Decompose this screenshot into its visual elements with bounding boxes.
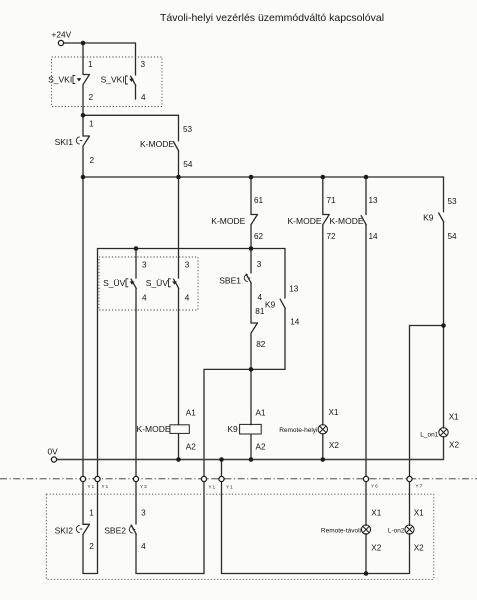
svg-text:3: 3 [142,261,147,270]
svg-text:0V: 0V [48,447,59,457]
svg-text:Távoli-helyi vezérlés üzemmódv: Távoli-helyi vezérlés üzemmódváltó kapcs… [160,12,384,24]
svg-text:SBE2: SBE2 [104,526,126,536]
svg-text:A2: A2 [256,443,266,452]
svg-text:Y 1: Y 1 [102,484,109,489]
svg-text:2: 2 [90,156,95,165]
svg-text:X2: X2 [371,544,381,553]
svg-text:K9: K9 [227,424,238,434]
svg-text:L-on2: L-on2 [388,528,405,535]
svg-text:Remote-helyi: Remote-helyi [279,427,317,434]
svg-text:13: 13 [289,285,299,294]
svg-text:K-MODE: K-MODE [330,216,364,226]
svg-text:SKI2: SKI2 [55,526,74,536]
svg-text:K-MODE: K-MODE [288,216,322,226]
svg-text:+24V: +24V [52,30,72,40]
svg-text:X1: X1 [329,408,339,417]
svg-text:1: 1 [89,509,94,518]
svg-text:K-MODE: K-MODE [211,216,245,226]
svg-text:X2: X2 [449,441,459,450]
svg-text:3: 3 [185,261,190,270]
svg-text:A1: A1 [186,409,196,418]
svg-text:1: 1 [88,60,93,69]
svg-text:3: 3 [141,60,146,69]
svg-text:54: 54 [448,232,458,241]
svg-text:K-MODE: K-MODE [140,139,174,149]
svg-text:L_on1: L_on1 [420,432,438,439]
svg-text:61: 61 [254,196,264,205]
svg-text:SBE1: SBE1 [219,276,241,286]
svg-text:13: 13 [369,196,379,205]
svg-text:4: 4 [258,293,263,302]
svg-text:53: 53 [183,125,193,134]
svg-text:Y 1: Y 1 [226,485,233,490]
svg-text:S_ÜV: S_ÜV [146,278,169,288]
svg-text:Y 6: Y 6 [371,484,378,489]
svg-text:3: 3 [257,260,262,269]
svg-text:K9: K9 [423,213,434,223]
svg-text:Y 3: Y 3 [140,484,147,489]
svg-text:X2: X2 [414,544,424,553]
svg-text:2: 2 [89,93,94,102]
svg-text:Remote-távoli: Remote-távoli [321,528,361,535]
svg-text:54: 54 [183,160,193,169]
svg-text:X1: X1 [449,413,459,422]
svg-text:Y 1: Y 1 [88,484,95,489]
svg-text:62: 62 [254,232,264,241]
svg-text:Y 7: Y 7 [416,484,423,489]
svg-text:S_ÜV: S_ÜV [103,278,126,288]
svg-text:X1: X1 [371,509,381,518]
svg-text:53: 53 [448,197,458,206]
svg-text:S_VKI: S_VKI [48,75,72,85]
svg-text:4: 4 [141,542,146,551]
svg-text:Y 1: Y 1 [209,485,216,490]
svg-text:SKI1: SKI1 [55,137,74,147]
svg-text:72: 72 [327,232,337,241]
svg-text:1: 1 [89,120,94,129]
svg-text:A2: A2 [186,443,196,452]
svg-text:4: 4 [185,294,190,303]
svg-text:3: 3 [141,509,146,518]
svg-text:X1: X1 [414,509,424,518]
svg-text:K9: K9 [265,300,276,310]
svg-text:14: 14 [290,318,300,327]
svg-text:K-MODE: K-MODE [137,424,171,434]
svg-text:81: 81 [255,307,265,316]
svg-text:82: 82 [256,340,266,349]
svg-text:14: 14 [369,232,379,241]
svg-text:S_VKI: S_VKI [101,75,125,85]
svg-text:X2: X2 [329,441,339,450]
svg-text:A1: A1 [256,409,266,418]
svg-text:4: 4 [142,294,147,303]
svg-text:71: 71 [327,196,337,205]
svg-text:2: 2 [89,542,94,551]
svg-text:4: 4 [141,93,146,102]
